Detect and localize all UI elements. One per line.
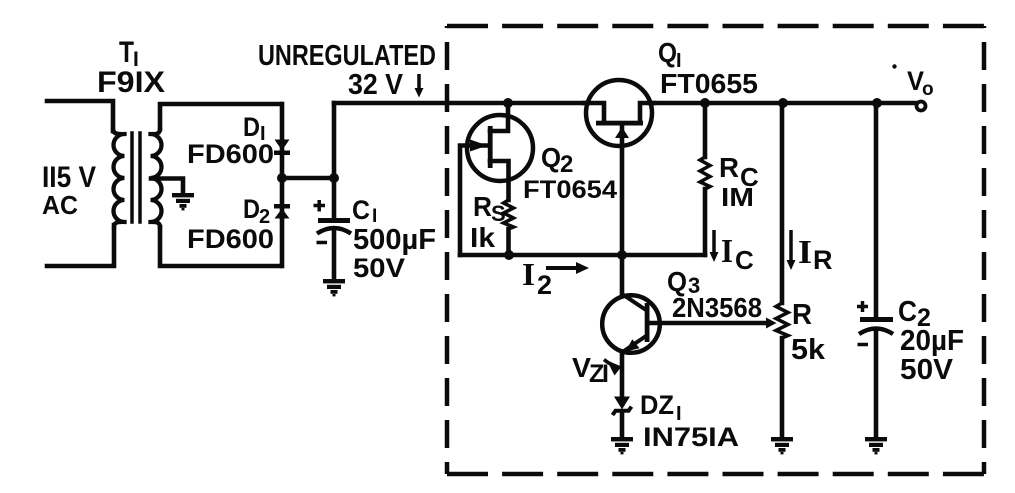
node RS bottom (504, 250, 514, 260)
wire Q1 source lead (584, 103, 604, 119)
wire R branch lower (780, 338, 785, 438)
svg-text:2N3568: 2N3568 (672, 292, 762, 323)
svg-text:I: I (721, 233, 733, 270)
wire bottom bias rail (460, 253, 705, 258)
wire main rail left of Q1 (334, 101, 588, 106)
svg-text:FT0654: FT0654 (523, 176, 617, 204)
svg-text:I: I (522, 256, 535, 292)
terminal Vo (917, 102, 926, 111)
wire Q2 source lead to RS (490, 161, 509, 200)
svg-text:R: R (813, 245, 833, 275)
wire main rail right of Q1 (650, 101, 917, 106)
node Q2 drain on rail (503, 98, 513, 108)
wire C2 branch lower (874, 330, 879, 438)
wire C1 branch vertical (332, 103, 337, 218)
svg-text:D: D (243, 112, 260, 142)
wire secondary top lead (160, 104, 280, 129)
node R branch on rail (778, 98, 788, 108)
diode D2 (274, 204, 290, 219)
wire DZ1 to ground (620, 412, 625, 438)
wire rectifier output to C1 (282, 176, 334, 181)
svg-text:32 V: 32 V (348, 69, 404, 101)
wire Q2 gate loop (460, 146, 488, 256)
arrow I2 current (546, 262, 589, 274)
svg-text:T: T (119, 36, 134, 69)
svg-text:Ik: Ik (470, 222, 495, 253)
svg-text:UNREGULATED: UNREGULATED (258, 40, 436, 72)
svg-text:20µF: 20µF (900, 325, 964, 357)
svg-text:2: 2 (537, 270, 552, 300)
node C1 junction (329, 173, 339, 183)
svg-text:5k: 5k (791, 334, 826, 366)
node RC on rail (700, 98, 710, 108)
resistor RS (504, 200, 514, 229)
svg-text:C: C (735, 245, 754, 275)
wire Q3 base to R wiper (649, 321, 768, 326)
transformer T1 primary winding (113, 129, 125, 227)
svg-text:R: R (792, 299, 812, 331)
svg-text:C: C (352, 195, 370, 225)
wire RS bottom (506, 229, 511, 255)
dashed feedback box (447, 26, 984, 474)
ground C1 (323, 279, 345, 296)
svg-text:IN75IA: IN75IA (643, 422, 739, 452)
arrow IC current (710, 230, 719, 262)
wire Q1 gate to Q3 collector (620, 127, 625, 294)
stray dot (892, 64, 896, 68)
arrow unregulated 32V pointer (415, 74, 424, 98)
svg-text:50V: 50V (900, 354, 954, 386)
wire Q2 drain lead (490, 103, 508, 131)
transformer T1 secondary winding (151, 129, 162, 227)
wire C2 branch upper (874, 103, 879, 317)
potentiometer R wiper arrowhead (766, 318, 777, 329)
svg-text:D: D (243, 194, 260, 224)
zener diode DZ1 (613, 397, 632, 416)
wire rectifier string (280, 104, 285, 266)
wire C1 lower (332, 230, 337, 280)
svg-text:o: o (922, 79, 934, 100)
svg-text:ZI: ZI (589, 360, 609, 388)
node Q1 gate bias (617, 250, 627, 260)
wire center tap (151, 179, 183, 192)
svg-text:FT0655: FT0655 (660, 68, 758, 99)
svg-text:50V: 50V (353, 253, 405, 283)
potentiometer R 5k (776, 303, 788, 338)
arrow IR current (787, 230, 796, 270)
capacitor C1 (314, 200, 352, 243)
ground C2 (865, 437, 887, 454)
svg-text:IM: IM (721, 182, 754, 212)
svg-text:F9IX: F9IX (97, 66, 165, 99)
ground DZ1 (611, 437, 633, 454)
wire secondary bottom lead (160, 227, 280, 266)
wire R branch upper (780, 103, 785, 303)
svg-text:FD600: FD600 (187, 139, 274, 169)
svg-text:C: C (898, 296, 917, 328)
wire RC top (703, 103, 708, 157)
svg-text:500µF: 500µF (353, 224, 436, 256)
svg-text:2: 2 (560, 151, 573, 178)
svg-text:R: R (473, 191, 492, 222)
ground R (771, 437, 793, 454)
ground center tap (172, 193, 194, 210)
svg-text:Q: Q (541, 142, 561, 173)
diode D1 (274, 140, 290, 156)
node C2 on rail (872, 98, 882, 108)
transformer T1 core (132, 133, 140, 222)
svg-text:DZ: DZ (640, 390, 674, 420)
wire primary bottom lead (47, 225, 114, 266)
svg-text:AC: AC (42, 190, 78, 220)
transistor Q1 FT0655 (586, 80, 652, 146)
transistor Q3 2N3568 (602, 294, 660, 353)
wire primary top lead (47, 101, 113, 131)
node rectifier junction (277, 173, 287, 183)
transistor Q2 FT0654 (467, 115, 533, 181)
svg-text:I: I (798, 234, 812, 271)
svg-text:Q: Q (658, 37, 677, 68)
wire Q3 emitter to DZ1 (620, 352, 625, 397)
capacitor C2 (857, 301, 893, 345)
svg-text:FD600: FD600 (187, 224, 274, 254)
wire Q1 drain lead (640, 103, 654, 119)
wire RC bottom (703, 189, 708, 255)
resistor RC (700, 157, 710, 189)
arrow VZ1 pointer (604, 360, 622, 376)
svg-text:R: R (719, 152, 739, 183)
